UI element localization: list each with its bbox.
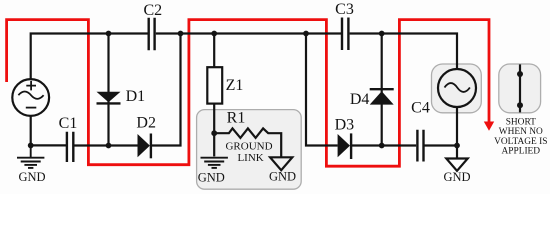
source V2 (AC, in box) (438, 69, 476, 107)
wire: D3 cathode to C4 (351, 144, 416, 146)
junction node (D1 bottom) (106, 143, 112, 149)
junction node (V1 bottom) (28, 143, 34, 149)
label SHORT WHEN NO VOLTAGE IS APPLIED (494, 117, 547, 156)
junction node (Z1 top) (211, 31, 217, 37)
V1 minus sign (26, 107, 37, 109)
closed switch bar (519, 64, 521, 112)
wire: Z1 top lead (213, 34, 215, 68)
zener/box resistor Z1 (207, 67, 222, 103)
junction node (D1 top) (106, 31, 112, 37)
wire: C4 to right source bottom node (424, 144, 458, 146)
wire: Z1 bottom lead (213, 104, 215, 134)
V1 sine wave (18, 92, 43, 99)
junction node (D4 top) (379, 31, 385, 37)
capacitor C3 (342, 18, 348, 51)
diode D1 (cathode down) (97, 92, 121, 104)
svg-text:D3: D3 (335, 117, 355, 134)
svg-text:GND: GND (198, 171, 225, 185)
label GROUND LINK (225, 141, 272, 165)
junction node (D2 top) (178, 31, 184, 37)
svg-text:D4: D4 (350, 91, 370, 108)
junction node (V2 bottom) (454, 143, 460, 149)
wire: stub to earth ground in box (213, 133, 215, 156)
wire: top bus C3 to right source (350, 34, 457, 70)
source V1 (AC with polarity) (12, 79, 49, 116)
earth ground (left outer) (17, 145, 44, 168)
ground-link enclosure box (197, 110, 302, 190)
svg-text:GND: GND (443, 170, 470, 184)
earth ground (inside box, left) (201, 158, 228, 168)
wire: D4 branch vertical (381, 34, 383, 146)
chassis ground triangle (inside box, right) (270, 157, 292, 170)
red path arrowhead (484, 122, 494, 131)
svg-text:GND: GND (269, 170, 296, 184)
diode D3 (pointing right) (338, 133, 352, 159)
V2 sine wave (445, 83, 470, 92)
svg-text:APPLIED: APPLIED (502, 147, 541, 157)
wire: D1 branch vertical (107, 34, 109, 146)
svg-text:LINK: LINK (237, 152, 263, 164)
svg-text:GROUND: GROUND (225, 141, 272, 153)
svg-text:WHEN NO: WHEN NO (499, 127, 543, 137)
junction node (D3 top) (303, 31, 309, 37)
svg-text:VOLTAGE IS: VOLTAGE IS (494, 137, 547, 147)
wire: D2 cathode up to top bus (151, 34, 181, 146)
AC source enclosure box (432, 64, 482, 113)
svg-text:C4: C4 (411, 100, 430, 117)
resistor R1 (zigzag) (214, 128, 281, 157)
capacitor C2 (149, 18, 155, 51)
svg-text:GND: GND (18, 170, 45, 184)
svg-text:D1: D1 (126, 88, 146, 105)
svg-text:D2: D2 (136, 114, 156, 131)
switch node bottom (517, 102, 523, 108)
wire: C1 to D2 (73, 144, 137, 146)
svg-text:C2: C2 (143, 2, 162, 19)
svg-text:C1: C1 (59, 115, 78, 132)
svg-text:R1: R1 (227, 110, 246, 127)
wire: top bus C2 to C3 (156, 32, 341, 34)
diode D2 (pointing right) (138, 134, 151, 159)
svg-text:C3: C3 (335, 1, 354, 18)
capacitor C1 (67, 132, 73, 162)
highlighted current path (red) (7, 20, 489, 167)
wire: stub to right ground (456, 146, 458, 159)
V1 plus sign (26, 81, 36, 91)
wire: source V1 bottom lead (30, 116, 32, 145)
wire: top bus left segment + source top lead (31, 34, 148, 80)
chassis ground triangle (right outer) (446, 159, 467, 171)
junction node (R1 left) (211, 130, 217, 136)
wire: bottom lead to C1 (31, 144, 66, 146)
svg-text:SHORT: SHORT (506, 117, 536, 127)
wire: right source bottom lead (456, 107, 458, 146)
switch node top (517, 71, 523, 77)
diode D4 (cathode up) (370, 89, 394, 104)
junction node (D4 bottom) (379, 143, 385, 149)
wire: D3 branch from top bus (306, 34, 338, 146)
switch enclosure box (499, 64, 541, 113)
svg-text:Z1: Z1 (226, 77, 244, 94)
capacitor C4 (417, 130, 423, 162)
